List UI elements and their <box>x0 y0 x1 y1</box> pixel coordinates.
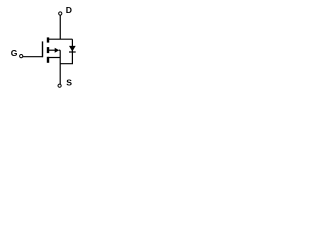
svg-text:G: G <box>11 48 18 58</box>
transistor Q1 (MOSFET gate plate and channel segments) <box>42 37 49 62</box>
wire: gate lead <box>23 56 43 58</box>
svg-text:S: S <box>66 78 72 88</box>
wire: drain lead from D terminal down <box>59 15 61 39</box>
wire: source stub <box>48 57 60 59</box>
svg-text:D: D <box>66 5 72 15</box>
wire: drain horizontal rail <box>48 38 72 40</box>
node S (source terminal circle) <box>58 84 61 87</box>
wire: source vertical rail <box>59 50 61 84</box>
node G (gate terminal circle) <box>20 55 23 58</box>
wire: body leg with arrow <box>49 48 60 53</box>
wire: diode branch (right) <box>60 39 72 64</box>
diode D1 (body diode) <box>69 46 76 53</box>
node D (drain terminal circle) <box>59 12 62 15</box>
